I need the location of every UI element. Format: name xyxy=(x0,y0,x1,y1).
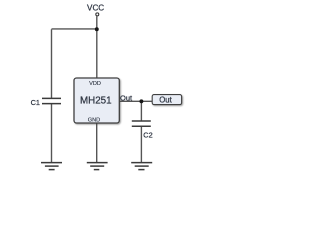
svg-text:Out: Out xyxy=(159,95,172,104)
svg-text:C1: C1 xyxy=(31,98,40,107)
svg-text:GND: GND xyxy=(88,117,100,123)
svg-text:Out: Out xyxy=(120,93,133,102)
svg-text:VDD: VDD xyxy=(89,81,101,87)
svg-text:VCC: VCC xyxy=(87,3,104,12)
svg-text:MH251: MH251 xyxy=(80,95,112,106)
svg-text:C2: C2 xyxy=(143,131,152,140)
